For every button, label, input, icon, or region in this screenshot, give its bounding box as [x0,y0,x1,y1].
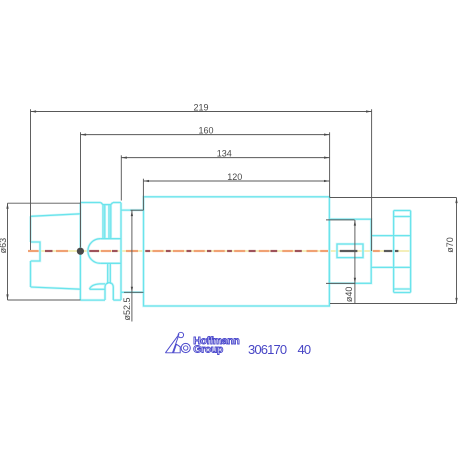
svg-text:ø40: ø40 [344,287,354,303]
svg-text:134: 134 [217,149,232,159]
svg-text:ø52.5: ø52.5 [122,297,132,320]
svg-text:Group: Group [193,344,223,355]
svg-text:160: 160 [198,126,213,136]
svg-text:219: 219 [193,103,208,113]
svg-text:ø70: ø70 [445,237,455,253]
svg-text:120: 120 [227,172,242,182]
svg-text:ø63: ø63 [0,238,8,254]
svg-text:306170: 306170 [248,342,287,357]
svg-text:40: 40 [298,342,311,357]
